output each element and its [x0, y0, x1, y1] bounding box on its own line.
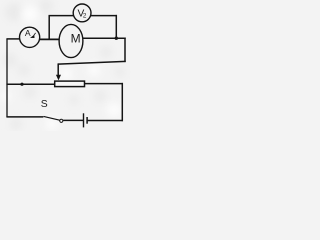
- wire: rheostat right lead: [85, 83, 123, 85]
- wire: outer left vertical: [6, 39, 8, 117]
- battery cell: [84, 113, 88, 127]
- wire: rheostat left lead: [6, 83, 55, 85]
- node: junction dot on motor right wire: [115, 37, 118, 40]
- wire: lower right vertical: [121, 83, 123, 121]
- ammeter needle mark: [30, 35, 35, 38]
- switch contact circle: [60, 119, 63, 122]
- wire: motor right horizontal: [83, 37, 126, 39]
- rheostat slider arrowhead: [56, 75, 61, 81]
- wire: voltmeter branch top-left horizontal: [49, 15, 74, 17]
- battery long plate: [83, 113, 85, 127]
- wire: motor-loop right vertical: [124, 38, 126, 63]
- wire: top-left horizontal into ammeter: [6, 38, 19, 40]
- wire: battery left lead: [63, 119, 83, 121]
- wire: slider stem down to arrow: [57, 63, 59, 76]
- wire: sloped horizontal above rheostat: [58, 61, 126, 64]
- voltmeter V2: [73, 4, 91, 22]
- wire: ammeter to motor (through node): [40, 38, 60, 40]
- rheostat R (slide): [55, 75, 85, 87]
- switch S: [41, 99, 63, 123]
- wire: voltmeter branch top-right horizontal: [91, 15, 117, 17]
- svg-text:S: S: [41, 99, 48, 110]
- svg-text:M: M: [71, 32, 81, 46]
- wire: voltmeter branch left vertical: [48, 16, 50, 40]
- motor M: [59, 24, 83, 57]
- wire: bottom left horizontal to switch: [6, 116, 43, 118]
- wire: bottom right horizontal from battery: [88, 120, 123, 122]
- node: junction dot on rheostat left lead: [20, 83, 23, 86]
- battery short plate: [86, 117, 88, 124]
- switch blade: [44, 116, 60, 120]
- ammeter A: [20, 27, 40, 47]
- svg-text:2: 2: [83, 12, 87, 19]
- svg-text:A: A: [25, 28, 31, 38]
- wire: voltmeter branch right vertical: [115, 15, 117, 38]
